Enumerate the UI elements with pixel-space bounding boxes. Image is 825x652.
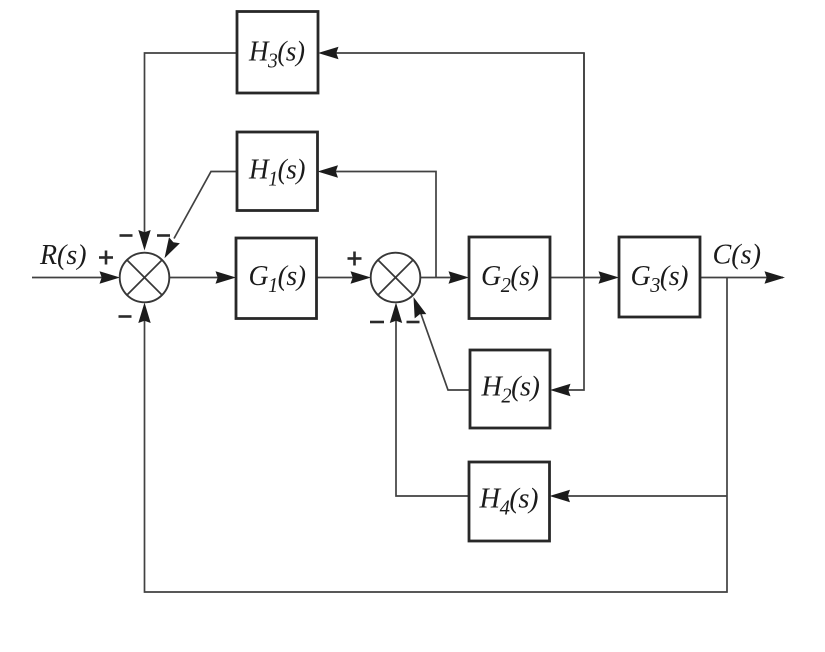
svg-text:G3(s): G3(s) [631, 260, 689, 297]
svg-text:R(s): R(s) [39, 240, 86, 271]
svg-text:C(s): C(s) [713, 240, 762, 271]
svg-text:G2(s): G2(s) [481, 260, 539, 297]
svg-text:G1(s): G1(s) [249, 260, 306, 297]
